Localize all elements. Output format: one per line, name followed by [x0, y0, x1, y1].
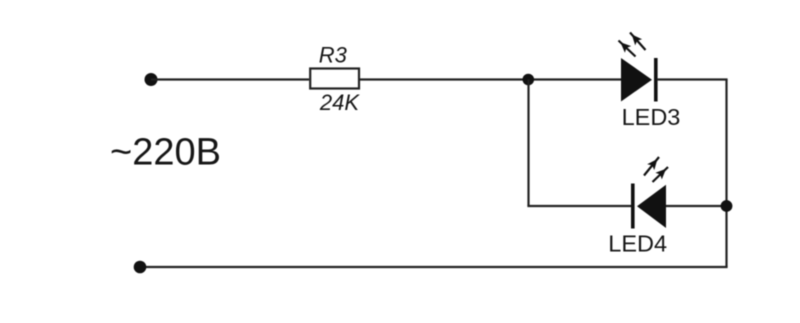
wire: bottom return wire — [140, 266, 728, 268]
LED4 emission arrow 2 (right, pointing up-right) — [653, 167, 669, 182]
resistor R3 body — [310, 69, 359, 89]
wire: lower branch horizontal to LED4 cathode — [527, 205, 631, 207]
wire: right vertical rail — [725, 80, 727, 268]
LED3 cathode bar — [654, 58, 658, 102]
LED4 emission arrow 1 (left, pointing up-right) — [644, 157, 659, 176]
wire: vertical drop from junction A — [527, 80, 529, 207]
wire: LED4 anode to right rail — [666, 205, 728, 207]
svg-text:R3: R3 — [319, 42, 348, 67]
LED3 emission arrow 2 (upper-right, pointing up-left) — [630, 33, 646, 51]
wire: LED3 cathode to right rail — [658, 78, 728, 80]
svg-text:LED4: LED4 — [608, 231, 667, 257]
LED3 emission arrow 1 (lower-left, pointing up-left) — [619, 41, 636, 57]
LED4 triangle (pointing left) — [637, 185, 666, 228]
svg-text:~220В: ~220В — [110, 132, 221, 174]
node A: junction dot on top wire — [523, 74, 535, 86]
wire: resistor to junction A and on to LED3 anode — [360, 78, 621, 80]
node: bottom-left terminal dot — [134, 261, 147, 274]
node B: junction dot on right rail — [721, 200, 733, 212]
LED3 triangle (anode, pointing right) — [621, 58, 652, 102]
node: top-left terminal dot — [145, 73, 158, 86]
svg-text:LED3: LED3 — [622, 104, 681, 130]
wire: top-left horizontal segment to resistor — [151, 78, 309, 80]
LED4 cathode bar — [631, 184, 635, 229]
svg-text:24K: 24K — [319, 90, 360, 115]
